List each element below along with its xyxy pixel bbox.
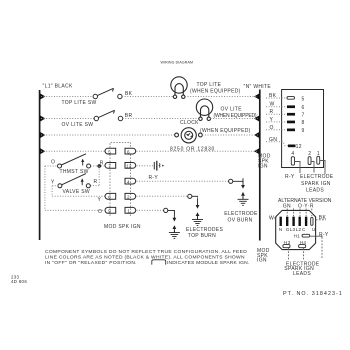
electrode OV BURN up arrow — [241, 192, 245, 199]
label MOD SPK IGN (octagon) — [257, 248, 270, 263]
connector pin 6 (right col) — [125, 148, 136, 154]
svg-text:ELECTRODE: ELECTRODE — [224, 211, 258, 217]
connector pin 5 (left col) — [105, 148, 116, 154]
octagon pin G (solid) — [286, 217, 288, 226]
svg-text:(WHEN EQUIPPED): (WHEN EQUIPPED) — [200, 128, 251, 134]
svg-text:GN: GN — [269, 137, 277, 143]
actuator arrow VALVE — [81, 178, 84, 185]
wire row1 lamp to bus N — [185, 96, 258, 98]
switch VALVE SW — [58, 174, 90, 188]
svg-text:12: 12 — [126, 164, 132, 169]
svg-text:LEADS: LEADS — [293, 271, 311, 277]
svg-text:H3: H3 — [284, 240, 291, 245]
wire row4 bus to pin5 — [41, 150, 105, 152]
svg-text:TOP LITE: TOP LITE — [197, 82, 222, 88]
wire splice to corner (top burn 2) — [168, 210, 175, 211]
svg-text:COMPONENT SYMBOLS DO NOT REFLE: COMPONENT SYMBOLS DO NOT REFLECT TRUE CO… — [45, 249, 247, 255]
junction on bus L1 row1 — [40, 93, 45, 99]
wire row1 switch to lamp — [122, 96, 173, 98]
module pin 8 (solid) — [287, 121, 295, 124]
electrode TOP BURN 1 up arrow — [196, 212, 200, 219]
octagon pin L2 (solid) — [299, 217, 301, 226]
lamp OV LITE — [196, 99, 212, 121]
clock — [175, 128, 203, 143]
dashed drops to octagon pins — [287, 209, 312, 217]
module pin 7 wire + label R — [266, 109, 288, 115]
wire Y horizontal to pin6 — [52, 195, 105, 197]
label ELECTRODES TOP BURN — [186, 227, 223, 239]
junction dot R — [97, 164, 101, 168]
wire pin1 to splice — [137, 209, 164, 211]
svg-text:N: N — [279, 227, 283, 232]
svg-text:(WHEN EQUIPPED): (WHEN EQUIPPED) — [214, 113, 257, 119]
lead from pin 2 — [311, 162, 314, 173]
stub W — [274, 217, 277, 219]
svg-text:H4: H4 — [300, 240, 307, 245]
octagon pin L3 (solid) — [292, 217, 294, 226]
svg-text:OV LITE: OV LITE — [221, 106, 243, 112]
svg-text:INDICATES MODULE SPARK IGN.: INDICATES MODULE SPARK IGN. — [167, 260, 249, 266]
lead from pin 1 — [320, 161, 325, 175]
svg-text:12: 12 — [296, 144, 302, 150]
svg-text:L2: L2 — [296, 227, 302, 232]
svg-text:6: 6 — [108, 195, 111, 200]
wire splice to corner (ov burn) — [233, 181, 243, 182]
connector pin 4 (right col) — [125, 178, 136, 184]
electrode TOP BURN 1 down arrow — [196, 198, 200, 209]
wire R branch horizontal — [90, 185, 99, 187]
svg-text:4D 806: 4D 806 — [11, 279, 27, 284]
wire thmst right to pin7 — [91, 165, 105, 167]
connector pin 7 (left col) — [105, 163, 116, 169]
module spark ign dashed bracket — [110, 143, 131, 148]
svg-text:9: 9 — [302, 128, 305, 134]
pin H3 — [283, 240, 291, 248]
svg-text:7: 7 — [108, 164, 111, 169]
svg-text:ELECTRODES: ELECTRODES — [186, 227, 223, 233]
junction on bus L1 row2 — [40, 115, 45, 121]
svg-text:TOP LITE SW: TOP LITE SW — [62, 100, 97, 106]
octagon pin C (solid) — [305, 217, 307, 226]
svg-text:W: W — [270, 102, 275, 108]
svg-text:OV BURN: OV BURN — [228, 217, 253, 223]
svg-text:6: 6 — [302, 105, 305, 111]
module pin 5 (outline) — [287, 97, 295, 100]
lead from pin 4 — [295, 162, 301, 174]
ground TOP BURN 2 — [169, 230, 180, 238]
svg-text:U: U — [312, 227, 316, 232]
switch THMST SW — [58, 154, 91, 168]
connector pin 6 (left col) — [105, 193, 116, 199]
module pin 6 wire + label W — [266, 102, 288, 108]
wire valve Y left — [52, 185, 58, 187]
junction on bus N row4 — [254, 148, 259, 154]
junction on bus N row3 — [254, 132, 259, 138]
dashed lead R-Y down — [321, 237, 323, 258]
svg-text:O: O — [51, 159, 55, 165]
wire row4 pin6R to bus N — [137, 150, 259, 152]
svg-text:WIRING DIAGRAM: WIRING DIAGRAM — [161, 60, 194, 64]
wire thmst O left — [45, 165, 58, 167]
octagon pin N (solid) — [280, 217, 282, 226]
connector pin 2 (right col) — [125, 193, 136, 199]
bus L1 (left feed line) — [39, 90, 41, 240]
svg-text:MOD SPK IGN: MOD SPK IGN — [104, 224, 141, 230]
svg-text:O: O — [270, 125, 274, 131]
wire pin2 to splice — [137, 195, 188, 197]
svg-text:4: 4 — [127, 179, 130, 184]
svg-text:9: 9 — [108, 209, 111, 214]
svg-text:Y: Y — [270, 117, 274, 123]
electrode TOP BURN 2 up arrow — [173, 225, 177, 232]
svg-text:8250 OR 12830: 8250 OR 12830 — [170, 146, 215, 152]
module bottom pin 1 — [317, 151, 320, 164]
module pin 7 (solid) — [287, 113, 295, 116]
module bottom pin 2 — [308, 151, 311, 165]
lamp TOP LITE — [171, 77, 187, 99]
module box (right) — [282, 90, 324, 168]
svg-text:1: 1 — [127, 209, 130, 214]
svg-text:R-Y: R-Y — [319, 232, 329, 238]
svg-text:2: 2 — [308, 151, 311, 157]
svg-text:O: O — [98, 209, 102, 215]
wire row3 clock to bus N — [202, 134, 258, 136]
svg-text:Y: Y — [51, 179, 55, 185]
svg-text:R: R — [270, 109, 274, 115]
svg-text:PT. NO. 318423-1: PT. NO. 318423-1 — [283, 291, 343, 297]
wire O vertical — [44, 166, 46, 210]
svg-text:8: 8 — [302, 120, 305, 126]
svg-text:VALVE SW: VALVE SW — [63, 189, 90, 195]
stub BK — [316, 219, 326, 221]
octagon module (alternate version) — [276, 210, 316, 249]
svg-text:R: R — [94, 179, 98, 185]
svg-text:6: 6 — [127, 149, 130, 154]
svg-text:SPARK IGN: SPARK IGN — [301, 181, 331, 187]
svg-text:"N" WHITE: "N" WHITE — [244, 84, 272, 90]
module pin 12 (solid) — [288, 145, 296, 148]
splice circle top burn 1 — [188, 194, 192, 198]
svg-text:"L1" BLACK: "L1" BLACK — [43, 84, 73, 90]
wire H1 to R-Y lead — [310, 236, 322, 237]
wire splice to corner (top burn 1) — [192, 196, 198, 197]
ground OV BURN — [238, 197, 249, 205]
connector pin 1 (right col) — [125, 207, 136, 213]
module pin 8 wire + label Y — [266, 117, 288, 123]
svg-text:L3: L3 — [290, 227, 296, 232]
svg-text:CLOCK: CLOCK — [180, 120, 199, 126]
svg-text:H1: H1 — [294, 233, 301, 238]
module spark ign symbol in note — [152, 260, 166, 265]
switch OV LITE SW — [94, 110, 123, 120]
note text block — [45, 249, 249, 266]
svg-text:W: W — [269, 216, 274, 222]
svg-text:5: 5 — [108, 149, 111, 154]
label R-Y ELECTRODE SPARK IGN LEADS — [285, 174, 334, 193]
capacitor / sensor at pin 12 — [154, 161, 163, 171]
junction on bus N row1 — [254, 93, 259, 99]
svg-text:LINE COLORS ARE AS NOTED (BLAC: LINE COLORS ARE AS NOTED (BLACK & WHITE)… — [45, 254, 245, 260]
wire pin4 R-Y — [137, 180, 229, 182]
label ELECTRODE SPARK IGN LEADS (octagon) — [284, 261, 319, 277]
svg-text:(WHEN EQUIPPED): (WHEN EQUIPPED) — [190, 88, 241, 94]
svg-text:IGN: IGN — [258, 164, 268, 170]
actuator arrow THMST — [81, 159, 84, 166]
svg-text:5: 5 — [302, 96, 305, 102]
junction on bus L1 row4 — [40, 148, 45, 154]
connector pin 9 (left col) — [105, 207, 116, 213]
dashed lead below H4 — [303, 248, 305, 260]
ground TOP BURN 1 — [192, 217, 203, 225]
wire Y vertical — [51, 186, 53, 197]
module bottom pin 4 — [291, 151, 294, 165]
electrode OV BURN spark gap down arrow — [241, 178, 245, 189]
wire R branch vertical — [98, 166, 100, 186]
junction on bus N row2 — [254, 115, 259, 121]
wire O horizontal to pin9 — [45, 209, 105, 211]
octagon pin labels N G L3 L2 C U — [279, 227, 316, 232]
junction on bus L1 row3 — [40, 132, 45, 138]
wire row2 switch to lamp — [123, 118, 199, 120]
svg-text:OV LITE SW: OV LITE SW — [62, 122, 94, 128]
octagon pin U (outline) — [311, 217, 313, 225]
module pin 9 wire + label O — [266, 125, 288, 131]
bus N (right feed line) — [259, 90, 261, 241]
wire row2 lamp to bus N — [211, 118, 259, 120]
wire row2 bus to switch — [41, 118, 94, 120]
module pin 9 (solid) — [287, 129, 295, 132]
electrode TOP BURN 2 down arrow — [173, 211, 177, 222]
svg-text:Y: Y — [98, 197, 102, 203]
connector body dashed line left column — [109, 155, 111, 218]
dashed lead below H3 — [288, 248, 290, 260]
wire row3 bus to clock — [41, 134, 175, 136]
module pin 6 (solid) — [287, 105, 295, 108]
svg-text:R-Y: R-Y — [149, 175, 159, 181]
svg-text:R-Y: R-Y — [285, 174, 295, 180]
svg-text:BK: BK — [269, 93, 277, 99]
svg-text:LEADS: LEADS — [306, 187, 324, 193]
splice circle R-Y — [229, 179, 233, 183]
svg-text:IN "OFF" OR "RELAXED" POSITION: IN "OFF" OR "RELAXED" POSITION. — [45, 260, 137, 266]
svg-text:2: 2 — [127, 195, 130, 200]
svg-text:BK: BK — [125, 91, 133, 97]
svg-text:7: 7 — [302, 113, 305, 119]
connector pin 12 (right col) — [125, 163, 136, 169]
connector body dashed line right column — [130, 155, 132, 218]
svg-text:ELECTRODE: ELECTRODE — [300, 174, 334, 180]
pin H4 — [299, 240, 307, 248]
label MOD SPK IGN (right box) — [258, 154, 271, 170]
splice circle top burn 2 — [164, 208, 168, 212]
pin H1 — [294, 233, 310, 238]
label ELECTRODE OV BURN — [224, 211, 258, 223]
svg-text:TOP BURN: TOP BURN — [188, 233, 216, 239]
module pin 5 wire + label BK — [266, 93, 287, 99]
svg-text:IGN: IGN — [257, 258, 267, 264]
svg-text:C: C — [302, 227, 306, 232]
wire pin12 to capacitor — [137, 165, 154, 167]
switch TOP LITE SW — [93, 88, 122, 98]
wire row1 bus to switch — [41, 96, 93, 98]
module pin 12 wire + label GN — [266, 137, 288, 146]
